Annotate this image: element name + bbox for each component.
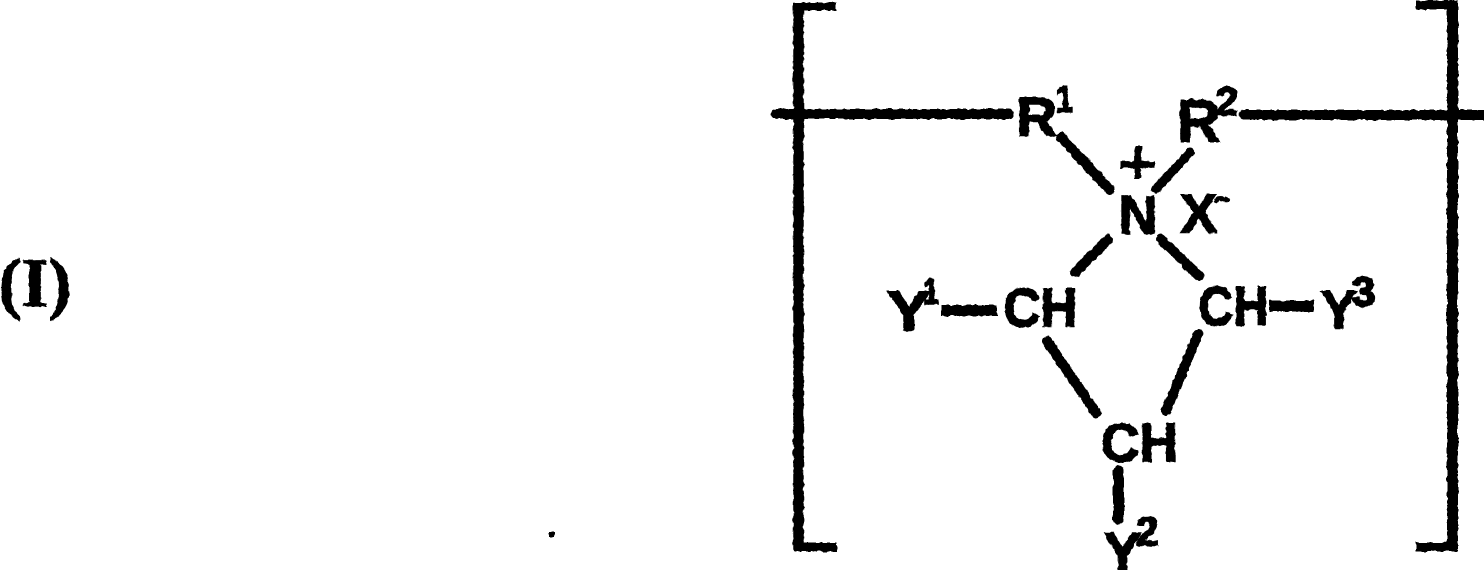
bond N-CH left <box>1075 240 1108 273</box>
svg-text:2: 2 <box>1216 80 1238 124</box>
bond CHright-CHcenter <box>1166 334 1198 411</box>
bond CH-Y3 <box>1269 301 1314 312</box>
node Y3 <box>1321 268 1376 341</box>
node R2 <box>1177 80 1238 155</box>
right bracket <box>1416 1 1458 551</box>
node Y1 <box>887 271 939 342</box>
svg-text:(I): (I) <box>0 245 71 321</box>
svg-text:R: R <box>1177 88 1220 155</box>
stray speck <box>549 532 555 537</box>
wire backbone left <box>776 109 1009 119</box>
bond R2-N <box>1156 153 1190 190</box>
left bracket <box>793 3 837 551</box>
bond Y1-CH <box>941 305 997 316</box>
svg-text:1: 1 <box>923 271 939 312</box>
svg-text:CH: CH <box>1101 412 1178 474</box>
svg-text:R: R <box>1017 85 1057 148</box>
bond CH-Y2 <box>1113 471 1124 519</box>
svg-text:CH: CH <box>1199 275 1269 337</box>
node Y2 <box>1104 509 1159 570</box>
svg-text:N: N <box>1119 186 1158 246</box>
wire backbone right <box>1244 110 1484 120</box>
bond N-CH right <box>1161 239 1199 276</box>
bond R1-N <box>1061 137 1110 190</box>
counter-ion X with minus <box>1181 183 1229 245</box>
svg-text:1: 1 <box>1056 79 1073 121</box>
svg-text:3: 3 <box>1352 268 1375 315</box>
svg-text:X: X <box>1181 183 1218 245</box>
bond CHleft-CHcenter <box>1047 341 1096 413</box>
svg-text:CH: CH <box>1004 277 1078 339</box>
plus charge <box>1121 146 1155 179</box>
node R1 <box>1017 79 1073 148</box>
svg-text:2: 2 <box>1136 509 1159 555</box>
